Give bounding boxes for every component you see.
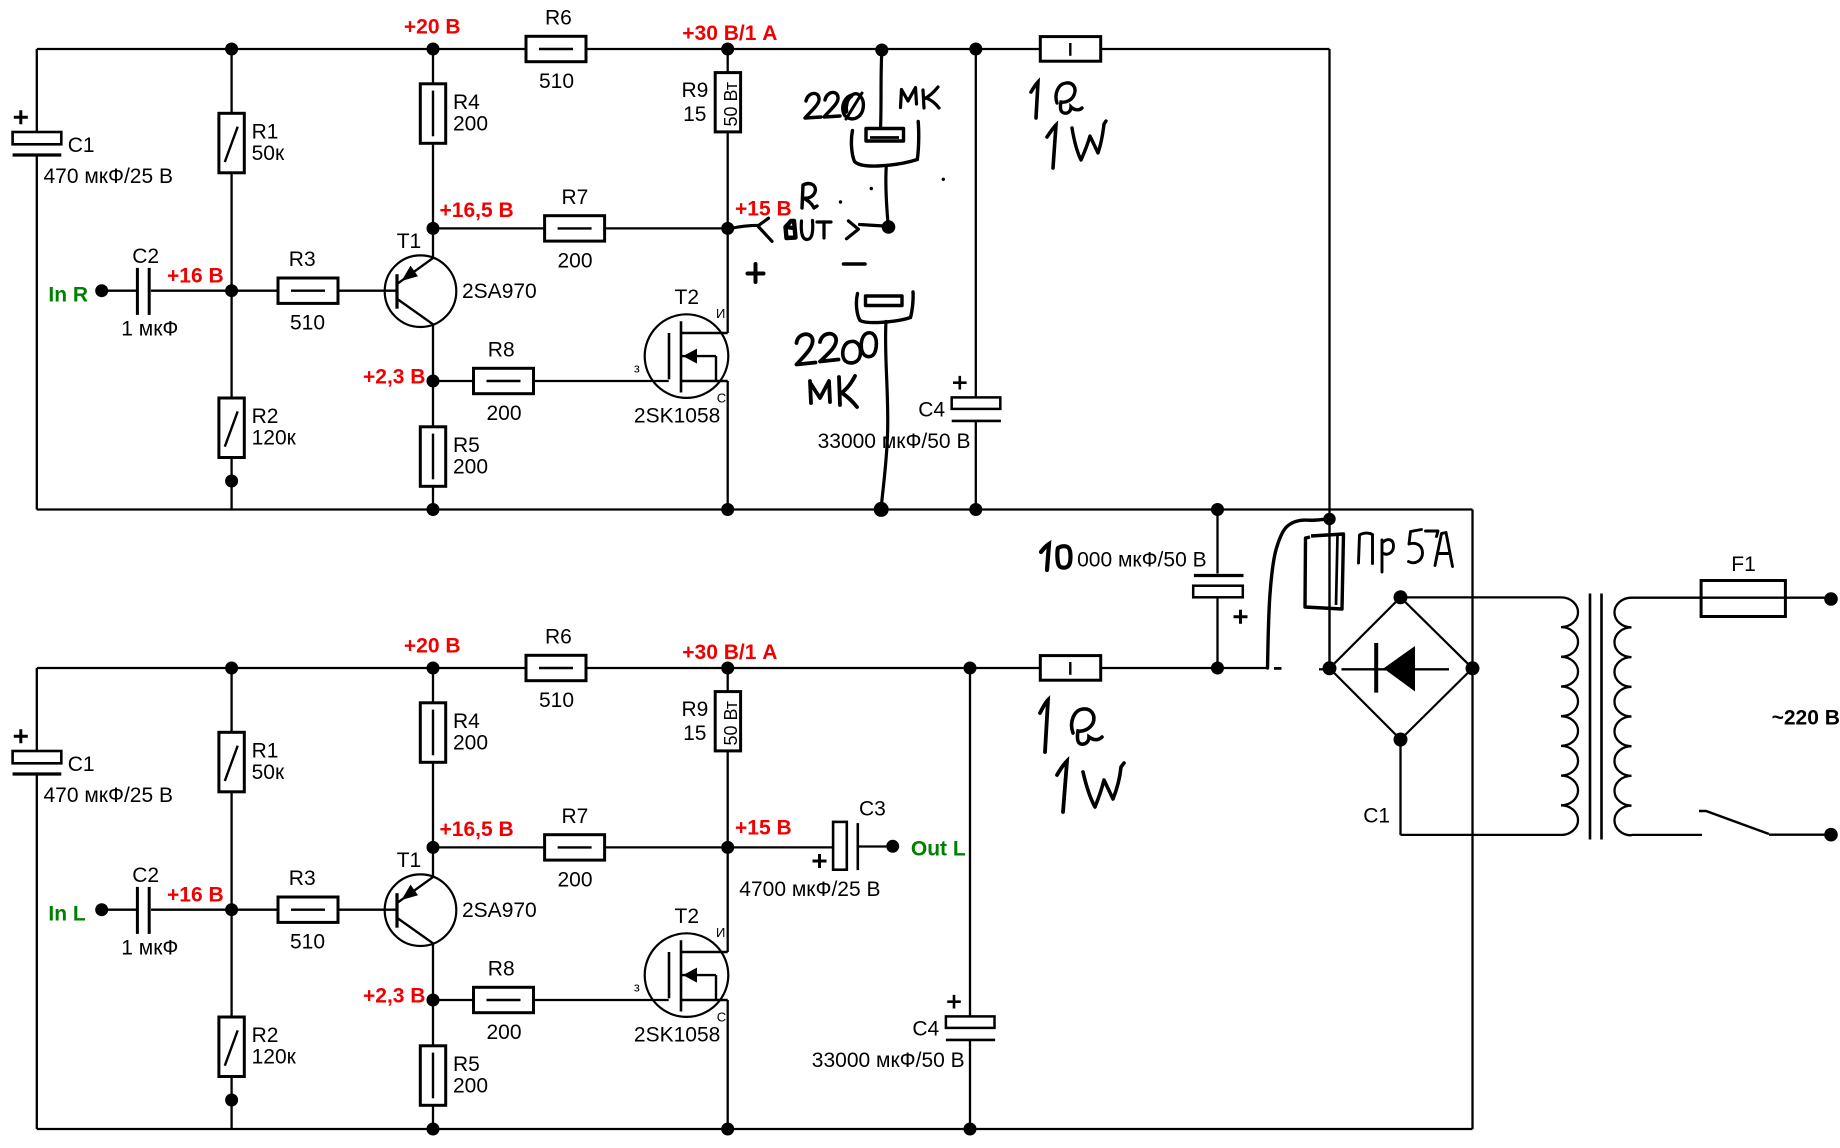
svg-text:200: 200 bbox=[453, 1074, 488, 1097]
svg-text:510: 510 bbox=[539, 689, 574, 712]
wire input to C2 (R channel) bbox=[102, 290, 136, 292]
resistor R4 (R channel) bbox=[420, 84, 488, 144]
svg-text:+30 В/1 А: +30 В/1 А bbox=[682, 641, 777, 664]
svg-text:з: з bbox=[634, 980, 640, 995]
node +2,3 В junction (R channel) bbox=[427, 375, 440, 388]
svg-text:50к: 50к bbox=[252, 761, 285, 784]
svg-text:200: 200 bbox=[453, 731, 488, 754]
resistor R1 (L channel) bbox=[219, 732, 285, 792]
junction T2 drain to rail (R channel) bbox=[721, 503, 734, 516]
hand-drawn wire from rail to fuse bbox=[1268, 519, 1330, 668]
svg-text:R7: R7 bbox=[562, 805, 589, 828]
resistor R7 (R channel) bbox=[545, 186, 605, 273]
wire R3 to T1 base (R channel) bbox=[338, 290, 397, 292]
wire switch to terminal bbox=[1769, 834, 1831, 836]
capacitor C3 (L channel) bbox=[833, 822, 847, 870]
resistor 1 Ohm (R channel) bbox=[1040, 37, 1100, 62]
wire top rail (R channel) bbox=[37, 48, 1041, 50]
svg-text:C2: C2 bbox=[132, 864, 159, 887]
transformer primary winding bbox=[1401, 597, 1579, 835]
junction C4 top (R channel) bbox=[969, 43, 982, 56]
wire C3 to Out L terminal bbox=[858, 845, 887, 847]
svg-text:+2,3 В: +2,3 В bbox=[363, 366, 425, 389]
svg-text:R9: R9 bbox=[682, 698, 709, 721]
svg-text:~220 В: ~220 В bbox=[1772, 706, 1840, 729]
terminal dot bottom right bbox=[1824, 828, 1838, 842]
wire top rail right section (L channel) bbox=[1101, 667, 1269, 669]
wire R4 column (L channel) bbox=[432, 668, 434, 1129]
resistor R2 (R channel) bbox=[219, 398, 297, 458]
junction below R2 (L channel) bbox=[225, 1094, 238, 1107]
junction on top rail at R1 (L channel) bbox=[225, 662, 238, 675]
svg-text:R2: R2 bbox=[252, 405, 279, 428]
junction C2 node stray mark (R channel) bbox=[839, 200, 842, 203]
label plus sign C3 (L channel) bbox=[813, 854, 827, 868]
label 10 hand-written bbox=[1041, 544, 1071, 570]
svg-text:R7: R7 bbox=[562, 186, 589, 209]
resistor R4 (L channel) bbox=[420, 703, 488, 763]
wire 10000uF column bbox=[1216, 510, 1218, 669]
svg-text:R3: R3 bbox=[289, 248, 316, 271]
diode bridge rectifier bbox=[1330, 597, 1473, 739]
svg-text:200: 200 bbox=[487, 402, 522, 425]
svg-text:С: С bbox=[717, 390, 726, 405]
junction bridge top vertex bbox=[1394, 590, 1408, 604]
svg-text:C1: C1 bbox=[68, 134, 95, 157]
junction hand-drawn output column top (R channel) bbox=[875, 44, 888, 57]
svg-text:R8: R8 bbox=[488, 339, 515, 362]
svg-text:33000 мкФ/50 В: 33000 мкФ/50 В bbox=[818, 430, 971, 453]
wire C3 line from +15 node (L channel) bbox=[728, 846, 833, 848]
resistor R1 (R channel) bbox=[219, 113, 285, 173]
svg-text:33000 мкФ/50 В: 33000 мкФ/50 В bbox=[812, 1049, 965, 1072]
label 1W hand-written (R channel) bbox=[1047, 121, 1106, 168]
svg-text:+15 В: +15 В bbox=[735, 198, 792, 221]
svg-text:In R: In R bbox=[48, 283, 88, 306]
wire R3 to T1 base (L channel) bbox=[338, 909, 397, 911]
wire top box right edge bbox=[1328, 49, 1330, 515]
node +16,5 В junction (R channel) bbox=[427, 222, 440, 235]
hand-drawn junction dot at fuse top bbox=[1323, 513, 1335, 525]
svg-text:15: 15 bbox=[683, 722, 706, 745]
svg-text:C1: C1 bbox=[68, 753, 95, 776]
wire R7 to +15 node (L channel) bbox=[604, 846, 728, 848]
svg-text:+20 В: +20 В bbox=[404, 15, 461, 38]
capacitor C4 (L channel) bbox=[812, 995, 995, 1072]
wire C4 column (L channel) bbox=[969, 668, 971, 1129]
svg-text:+16 В: +16 В bbox=[167, 264, 224, 287]
switch bbox=[1699, 811, 1769, 834]
svg-text:C3: C3 bbox=[859, 798, 886, 821]
wire C2 to node (R channel) bbox=[151, 290, 278, 292]
svg-text:T1: T1 bbox=[397, 230, 422, 253]
label 1 Ohm hand-written (L channel) bbox=[1040, 700, 1102, 752]
resistor R8 (R channel) bbox=[474, 339, 534, 426]
svg-text:1 мкФ: 1 мкФ bbox=[121, 318, 178, 341]
svg-text:Out L: Out L bbox=[911, 838, 966, 861]
input terminal In R bbox=[48, 283, 108, 306]
capacitor C1 (R channel) bbox=[13, 110, 173, 188]
svg-text:С: С bbox=[717, 1009, 726, 1024]
hand-drawn capacitor 220 мк (R channel) bbox=[851, 122, 918, 167]
node +15 В junction (R channel) bbox=[721, 222, 734, 235]
junction C4 bottom (L channel) bbox=[964, 1123, 977, 1136]
output terminal Out L bbox=[886, 838, 966, 861]
svg-text:200: 200 bbox=[453, 112, 488, 135]
wire R8 to T2 gate (L channel) bbox=[534, 999, 669, 1001]
wire top rail (L channel) bbox=[37, 667, 1041, 669]
resistor R5 (R channel) bbox=[420, 427, 488, 487]
label 1 Ohm hand-written (R channel) bbox=[1031, 82, 1082, 118]
wire input to C2 (L channel) bbox=[102, 909, 136, 911]
junction C4 bottom (R channel) bbox=[969, 503, 982, 516]
wire node to R8 (R channel) bbox=[433, 380, 474, 382]
resistor R2 (L channel) bbox=[219, 1017, 297, 1077]
transistor T2 2SK1058 (R channel) bbox=[634, 286, 728, 427]
svg-text:4700 мкФ/25 В: 4700 мкФ/25 В bbox=[739, 878, 880, 901]
transistor T1 2SA970 (L channel) bbox=[385, 849, 537, 946]
terminal dot top right bbox=[1824, 592, 1838, 606]
label 2200 МК hand-written (R channel) bbox=[797, 333, 877, 407]
label 1W hand-written (L channel) bbox=[1057, 761, 1124, 812]
svg-text:120к: 120к bbox=[252, 427, 297, 450]
svg-text:R1: R1 bbox=[252, 120, 279, 143]
junction R9 top (L channel) bbox=[721, 662, 734, 675]
svg-text:50 Вт: 50 Вт bbox=[721, 82, 741, 127]
wire R4 column (R channel) bbox=[432, 49, 434, 510]
svg-text:R2: R2 bbox=[252, 1024, 279, 1047]
node +16 В junction (L channel) bbox=[225, 903, 238, 916]
fuse F1 bbox=[1701, 553, 1785, 617]
node +20 В junction (R channel) bbox=[427, 43, 440, 56]
wire left edge (R channel) bbox=[36, 49, 38, 510]
svg-text:2SK1058: 2SK1058 bbox=[634, 404, 720, 427]
svg-text:200: 200 bbox=[487, 1021, 522, 1044]
junction R9 top (R channel) bbox=[721, 43, 734, 56]
svg-text:R6: R6 bbox=[545, 626, 572, 649]
wire R1/R2 column (R channel) bbox=[230, 49, 232, 510]
junction bridge bottom vertex bbox=[1394, 733, 1408, 747]
wire node to R7 (L channel) bbox=[433, 846, 545, 848]
capacitor C1 (L channel) bbox=[13, 729, 173, 807]
wire C4 column (R channel) bbox=[975, 49, 977, 510]
hand-written minus sign (R channel) bbox=[844, 262, 866, 266]
svg-text:T1: T1 bbox=[397, 849, 422, 872]
resistor R9 (L channel) bbox=[682, 692, 742, 751]
wire R7 to +15 node (R channel) bbox=[604, 227, 728, 229]
node +16,5 В junction (L channel) bbox=[427, 841, 440, 854]
resistor R5 (L channel) bbox=[420, 1046, 488, 1106]
capacitor C2 (R channel) bbox=[121, 245, 178, 341]
resistor R7 (L channel) bbox=[545, 805, 605, 892]
transformer secondary winding bbox=[1614, 598, 1702, 836]
junction R5 to rail (R channel) bbox=[427, 503, 440, 516]
junction C4 top (L channel) bbox=[964, 662, 977, 675]
svg-text:R5: R5 bbox=[453, 1053, 480, 1076]
wire F1 to terminal bbox=[1785, 597, 1831, 599]
svg-text:T2: T2 bbox=[675, 905, 700, 928]
junction on top rail at R1 (R channel) bbox=[225, 43, 238, 56]
svg-text:000 мкФ/50 В: 000 мкФ/50 В bbox=[1077, 549, 1207, 572]
svg-text:470 мкФ/25 В: 470 мкФ/25 В bbox=[44, 165, 174, 188]
svg-text:+30 В/1 А: +30 В/1 А bbox=[682, 22, 777, 45]
node +15 В junction (L channel) bbox=[721, 841, 734, 854]
svg-text:In L: In L bbox=[48, 902, 85, 925]
hand-drawn capacitor 2200 МК (R channel) bbox=[856, 292, 913, 323]
svg-text:F1: F1 bbox=[1731, 553, 1756, 576]
svg-text:510: 510 bbox=[539, 70, 574, 93]
svg-text:2SA970: 2SA970 bbox=[462, 899, 537, 922]
wire R1/R2 column (L channel) bbox=[230, 668, 232, 1129]
transistor T2 2SK1058 (L channel) bbox=[634, 905, 728, 1046]
svg-text:R1: R1 bbox=[252, 739, 279, 762]
svg-text:C4: C4 bbox=[918, 399, 945, 422]
svg-text:R4: R4 bbox=[453, 710, 480, 733]
svg-text:C4: C4 bbox=[912, 1018, 939, 1041]
label 220 мк hand-written (R channel) bbox=[805, 87, 939, 119]
wire bottom rail (L channel) bbox=[37, 1128, 1473, 1130]
wire bridge bottom to transformer bbox=[1399, 740, 1401, 836]
svg-text:200: 200 bbox=[453, 455, 488, 478]
capacitor C4 (R channel) bbox=[818, 376, 1001, 453]
stray mark 2 (R channel) bbox=[942, 178, 945, 181]
label R OUT hand-written (R channel) bbox=[729, 184, 884, 242]
svg-text:R8: R8 bbox=[488, 958, 515, 981]
svg-text:R3: R3 bbox=[289, 867, 316, 890]
hand-written plus sign (R channel) bbox=[748, 264, 764, 282]
junction T2 drain to rail (L channel) bbox=[721, 1123, 734, 1136]
junction below R2 (R channel) bbox=[225, 475, 238, 488]
resistor R8 (L channel) bbox=[474, 958, 534, 1045]
svg-text:+16,5 В: +16,5 В bbox=[440, 818, 514, 841]
hand-drawn fuse Пр5А bbox=[1305, 534, 1344, 609]
wire bottom rail (R channel) bbox=[37, 508, 1473, 510]
svg-text:1 мкФ: 1 мкФ bbox=[121, 937, 178, 960]
wire node to R7 (R channel) bbox=[433, 227, 545, 229]
svg-text:+16 В: +16 В bbox=[167, 883, 224, 906]
svg-text:510: 510 bbox=[290, 312, 325, 335]
wire R9 column (L channel) bbox=[727, 668, 729, 1129]
svg-text:R9: R9 bbox=[682, 79, 709, 102]
wire node to R8 (L channel) bbox=[433, 999, 474, 1001]
wire stub at bridge left vertex bbox=[1319, 668, 1330, 670]
node +16 В junction (R channel) bbox=[225, 284, 238, 297]
junction hand-drawn wire to bottom rail (R channel) bbox=[874, 502, 889, 517]
svg-text:+15 В: +15 В bbox=[735, 817, 792, 840]
wire through fuse to bridge bbox=[1328, 524, 1330, 663]
transistor T1 2SA970 (R channel) bbox=[385, 230, 537, 327]
wire hand-drawn capacitor to bottom rail (R channel) bbox=[881, 322, 887, 507]
hand-drawn output node (R channel) bbox=[882, 220, 896, 234]
capacitor C3 right plate (L channel) bbox=[856, 823, 859, 870]
hand-drawn dash on wire bbox=[1274, 667, 1282, 670]
svg-text:И: И bbox=[716, 925, 725, 940]
svg-text:2SA970: 2SA970 bbox=[462, 280, 537, 303]
svg-text:470 мкФ/25 В: 470 мкФ/25 В bbox=[44, 784, 174, 807]
capacitor 10 000 мкФ/50 В bbox=[1077, 549, 1247, 624]
wire PSU box right edge bbox=[1471, 510, 1473, 1130]
svg-text:15: 15 bbox=[683, 103, 706, 126]
capacitor C2 (L channel) bbox=[121, 864, 178, 960]
wire C2 to node (L channel) bbox=[151, 909, 278, 911]
wire hand-drawn from rail to output capacitor (R channel) bbox=[881, 52, 882, 127]
wire hand-drawn capacitor to output node (R channel) bbox=[886, 166, 888, 221]
junction R5 to rail (L channel) bbox=[427, 1123, 440, 1136]
node +20 В junction (L channel) bbox=[427, 662, 440, 675]
wire top rail right section (R channel) bbox=[1101, 48, 1330, 50]
svg-text:C2: C2 bbox=[132, 245, 159, 268]
svg-text:+2,3 В: +2,3 В bbox=[363, 985, 425, 1008]
resistor R3 (L channel) bbox=[278, 867, 338, 954]
svg-text:R4: R4 bbox=[453, 91, 480, 114]
input terminal In L bbox=[48, 902, 108, 925]
svg-text:200: 200 bbox=[558, 249, 593, 272]
svg-text:200: 200 bbox=[558, 868, 593, 891]
resistor R6 (L channel) bbox=[526, 626, 586, 713]
junction 10000uF bottom bbox=[1211, 662, 1224, 675]
wire R8 to T2 gate (R channel) bbox=[534, 380, 669, 382]
node +2,3 В junction (L channel) bbox=[427, 994, 440, 1007]
junction bridge right vertex bbox=[1466, 661, 1480, 675]
svg-text:R5: R5 bbox=[453, 434, 480, 457]
resistor R6 (R channel) bbox=[526, 7, 586, 94]
transformer core bbox=[1590, 594, 1602, 840]
svg-text:50 Вт: 50 Вт bbox=[721, 701, 741, 746]
svg-text:R6: R6 bbox=[545, 7, 572, 30]
resistor 1 Ohm (L channel) bbox=[1040, 656, 1100, 681]
stray mark 3 (R channel) bbox=[870, 187, 873, 190]
resistor R9 (R channel) bbox=[682, 73, 742, 132]
svg-text:И: И bbox=[716, 306, 725, 321]
svg-text:2SK1058: 2SK1058 bbox=[634, 1023, 720, 1046]
svg-text:50к: 50к bbox=[252, 142, 285, 165]
svg-text:+16,5 В: +16,5 В bbox=[440, 199, 514, 222]
label Пр5А hand-written bbox=[1359, 530, 1453, 573]
wire left edge (L channel) bbox=[36, 668, 38, 1129]
svg-text:C1: C1 bbox=[1363, 804, 1390, 827]
svg-text:510: 510 bbox=[290, 931, 325, 954]
svg-text:120к: 120к bbox=[252, 1046, 297, 1069]
svg-text:+20 В: +20 В bbox=[404, 634, 461, 657]
junction 10000uF top bbox=[1211, 503, 1224, 516]
svg-text:з: з bbox=[634, 361, 640, 376]
resistor R3 (R channel) bbox=[278, 248, 338, 335]
label МК hand-written (R channel) bbox=[901, 88, 917, 108]
svg-text:T2: T2 bbox=[675, 286, 700, 309]
junction bridge left vertex bbox=[1323, 661, 1337, 675]
wire R9 column (R channel) bbox=[727, 49, 729, 510]
